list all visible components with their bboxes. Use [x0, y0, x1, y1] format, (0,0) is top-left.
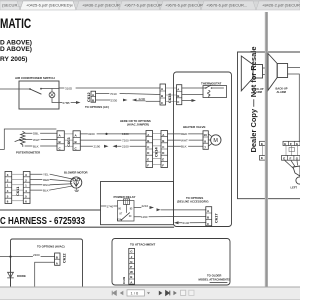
- potentiometer box lines: [0, 129, 56, 149]
- stubs: [262, 146, 264, 156]
- wire 1740: [101, 205, 118, 207]
- switch top wire: [41, 89, 59, 93]
- svg-text:D: D: [147, 151, 149, 155]
- svg-text:1 / 6: 1 / 6: [131, 291, 140, 296]
- thermostat box: [203, 86, 227, 98]
- C614 stubs: [153, 134, 162, 165]
- svg-text:WHT: WHT: [33, 138, 40, 142]
- lamp bottom wire: [52, 98, 59, 103]
- svg-text:YEL: YEL: [43, 173, 49, 177]
- mating stubs: [286, 146, 297, 156]
- dropdown tick: [147, 292, 150, 294]
- svg-text:2140: 2140: [183, 221, 190, 225]
- svg-text:C612: C612: [62, 253, 67, 263]
- svg-text:M: M: [213, 138, 218, 144]
- svg-text:DBL: DBL: [33, 132, 39, 136]
- enclosure top line: [269, 51, 301, 53]
- backup alarm enclosure (left pane): [238, 52, 266, 199]
- pot wires DBL WHT BLK: [25, 132, 57, 134]
- connector C614 half 1: [146, 131, 153, 168]
- svg-text:POTENTIOMETER: POTENTIOMETER: [16, 150, 40, 154]
- svg-text:B: B: [162, 139, 164, 143]
- connector C612 (lower): [55, 253, 60, 265]
- svg-text:RNG: RNG: [43, 183, 50, 187]
- svg-text:7200: 7200: [122, 138, 129, 142]
- svg-text:C611: C611: [15, 186, 20, 196]
- right pane schematic: [268, 52, 303, 199]
- svg-text:E: E: [284, 142, 286, 146]
- svg-text:RED: RED: [181, 132, 188, 136]
- nav first page: [112, 291, 116, 295]
- svg-text:F: F: [147, 164, 149, 168]
- svg-text:N: N: [130, 260, 132, 264]
- svg-text:E: E: [261, 142, 263, 146]
- svg-text:P: P: [130, 265, 132, 269]
- svg-text:+8426-2.pdf (SECUR...: +8426-2.pdf (SECUR...: [262, 3, 300, 8]
- nav last page: [166, 291, 170, 296]
- schematic (left pane): [0, 16, 265, 287]
- svg-text:1190: 1190: [141, 215, 148, 219]
- extra icon doc1: [181, 290, 186, 295]
- svg-text:(SECUR...: (SECUR...: [2, 3, 21, 8]
- svg-text:F: F: [162, 164, 164, 168]
- wire 1190: [134, 215, 206, 217]
- backup alarm speaker (left pane): [241, 56, 253, 91]
- svg-text:2300: 2300: [33, 253, 40, 257]
- svg-text:ALARM: ALARM: [277, 90, 286, 94]
- svg-text:C612: C612: [86, 92, 91, 102]
- svg-text:2200: 2200: [139, 97, 146, 101]
- wire into switch: [0, 88, 30, 90]
- wire 310D: [59, 87, 160, 89]
- svg-text:E: E: [162, 157, 164, 161]
- connector C611 half 1: [5, 172, 12, 204]
- C611 stubs: [12, 174, 24, 201]
- svg-text:B: B: [147, 139, 149, 143]
- svg-text:(DELUXE ACCESSORY): (DELUXE ACCESSORY): [177, 200, 209, 204]
- tab 4: [119, 1, 160, 10]
- tab 2 active: [20, 1, 76, 10]
- svg-text:BLK: BLK: [33, 144, 39, 148]
- svg-text:C HARNESS - 6725933: C HARNESS - 6725933: [0, 215, 85, 226]
- wire 7200: [80, 139, 146, 141]
- svg-text:+9676-6.pdf (SECUR...: +9676-6.pdf (SECUR...: [206, 3, 247, 8]
- svg-text:E: E: [261, 156, 263, 160]
- thermostat wire A: [182, 87, 224, 89]
- back-up alarm speaker: [268, 54, 277, 91]
- svg-text:3200: 3200: [88, 132, 95, 136]
- svg-text:MODEL ATTACHMENTS: MODEL ATTACHMENTS: [199, 277, 231, 281]
- svg-text:D ABOVE): D ABOVE): [0, 46, 32, 53]
- svg-text:POWER RELAY: POWER RELAY: [114, 195, 136, 199]
- browser tab bar: [0, 0, 303, 10]
- wire 278B + arrow: [59, 102, 76, 104]
- svg-text:RY 2005): RY 2005): [0, 56, 28, 63]
- alarm wires: [288, 68, 300, 142]
- wire C with arrow: [182, 100, 192, 102]
- wire 2330 with arrows: [96, 99, 110, 101]
- connector C614 half 2: [161, 131, 168, 168]
- svg-text:E: E: [147, 157, 149, 161]
- wire 3200 / 1300: [80, 133, 146, 135]
- heater valve wires RED WHT BLK: [168, 133, 204, 135]
- page box: [127, 290, 145, 296]
- svg-text:C603: C603: [66, 137, 71, 147]
- switch lever: [30, 89, 41, 94]
- svg-text:10: 10: [204, 133, 208, 137]
- svg-text:2330: 2330: [111, 98, 118, 102]
- svg-text:278B: 278B: [63, 101, 70, 105]
- svg-text:E: E: [283, 156, 285, 160]
- svg-text:Dealer Copy — Not for Resale: Dealer Copy — Not for Resale: [249, 47, 258, 153]
- wire from A down: [35, 262, 55, 287]
- diode: [10, 258, 12, 272]
- wire 2190 with arrows / 2100: [80, 145, 92, 147]
- svg-text:+9676-6.pdf (SECUR...: +9676-6.pdf (SECUR...: [165, 3, 206, 8]
- connector row 2: [282, 156, 301, 161]
- svg-text:1740: 1740: [107, 204, 114, 208]
- connector C638 half 2: [177, 85, 182, 105]
- connector C638 pair: [160, 84, 166, 105]
- thermostat wire B: [182, 94, 203, 96]
- bottom toolbar: [0, 287, 300, 300]
- relay internals: [118, 201, 135, 222]
- connector cells near splitter row2: [260, 156, 266, 161]
- section divider above title: [0, 209, 101, 211]
- extra icon play: [173, 291, 176, 295]
- svg-text:C149: C149: [122, 276, 126, 284]
- svg-text:2100: 2100: [122, 145, 129, 149]
- wire 2140 with left arrow: [174, 221, 179, 224]
- heater valve pins 10 8 7: [203, 131, 208, 150]
- thermostat switch contacts: [205, 87, 207, 89]
- svg-text:C617: C617: [214, 213, 219, 223]
- splitter bar: [265, 12, 268, 287]
- enclosure bottom line: [269, 198, 301, 200]
- heater valve motor: [211, 135, 221, 145]
- svg-text:THERMOSTAT: THERMOSTAT: [201, 82, 222, 86]
- svg-text:F: F: [290, 142, 292, 146]
- connector row 1: [283, 141, 300, 145]
- wire 2210 with arrow: [134, 207, 141, 209]
- svg-text:TO ATTACHMENT: TO ATTACHMENT: [130, 242, 155, 246]
- nav prev page: [120, 291, 124, 295]
- horn circle: [296, 177, 303, 184]
- svg-text:+9677-6.pdf (SECUR...: +9677-6.pdf (SECUR...: [124, 3, 165, 8]
- svg-text:DIODE: DIODE: [17, 274, 26, 278]
- svg-text:310D: 310D: [65, 86, 73, 90]
- svg-text:W: W: [130, 270, 133, 274]
- wire 2300: [0, 256, 55, 258]
- C638 mating stubs: [166, 88, 177, 102]
- svg-text:7010: 7010: [110, 92, 117, 96]
- svg-text:HEATER VALVE: HEATER VALVE: [183, 125, 206, 129]
- svg-text:1300: 1300: [122, 132, 129, 136]
- svg-text:AIR CONDITIONER SWITCH: AIR CONDITIONER SWITCH: [15, 76, 55, 80]
- tab 7: [256, 1, 300, 10]
- svg-text:D: D: [162, 151, 164, 155]
- nav next page: [159, 291, 163, 296]
- svg-text:+8436-2.pdf (SECUR...: +8436-2.pdf (SECUR...: [82, 3, 123, 8]
- connector C603 half 2: [73, 131, 80, 151]
- thermostat coil: [208, 91, 210, 98]
- wire 7010: [96, 94, 160, 95]
- svg-text:(HVAC JUMPER): (HVAC JUMPER): [127, 123, 149, 127]
- potentiometer symbol: [21, 132, 25, 147]
- svg-text:MATIC: MATIC: [0, 16, 31, 32]
- hvac options box: [11, 239, 83, 287]
- indicator lamp: [49, 92, 55, 98]
- tab 3: [76, 1, 119, 10]
- svg-text:×: ×: [71, 3, 74, 8]
- svg-text:2210: 2210: [142, 204, 149, 208]
- svg-text:B: B: [177, 94, 179, 98]
- blower motor: [71, 177, 82, 188]
- power relay box: [101, 182, 174, 225]
- wire into C617 A: [157, 208, 161, 211]
- extra icon doc2: [189, 290, 194, 295]
- svg-text:BLK: BLK: [181, 145, 187, 149]
- svg-text:LEFT: LEFT: [291, 185, 298, 189]
- tall options box: [174, 72, 232, 227]
- svg-text:B: B: [161, 94, 163, 98]
- svg-text:C614: C614: [154, 147, 159, 157]
- svg-text:2190: 2190: [94, 145, 101, 149]
- svg-text:+0425-6.pdf (SECURED): +0425-6.pdf (SECURED): [26, 3, 71, 8]
- horn: [293, 166, 300, 176]
- svg-text:TO OPTIONS (HVAC): TO OPTIONS (HVAC): [37, 245, 65, 249]
- svg-text:BLOWER MOTOR: BLOWER MOTOR: [64, 170, 88, 174]
- connector (7 pin): [129, 248, 135, 284]
- tab 1 partial: [0, 1, 20, 10]
- blower wires YEL RED RNG BLK: [30, 174, 73, 179]
- connector C611 half 2: [23, 172, 30, 204]
- connector C603 half 1: [57, 131, 64, 151]
- connector cells near splitter row1: [260, 141, 266, 145]
- svg-text:RED: RED: [43, 178, 50, 182]
- C603 stubs: [64, 134, 73, 146]
- svg-text:F: F: [290, 156, 292, 160]
- connector C617: [206, 207, 212, 226]
- attachment box: [112, 239, 230, 286]
- svg-text:BLK: BLK: [43, 188, 49, 192]
- svg-text:WHT: WHT: [181, 138, 188, 142]
- tab 5: [160, 1, 201, 10]
- tab 6: [201, 1, 256, 10]
- air conditioner switch box: [19, 81, 59, 109]
- section divider below title: [0, 226, 174, 228]
- svg-text:TO OPTIONS (AC): TO OPTIONS (AC): [85, 105, 109, 109]
- converging wires to horn: [285, 160, 298, 168]
